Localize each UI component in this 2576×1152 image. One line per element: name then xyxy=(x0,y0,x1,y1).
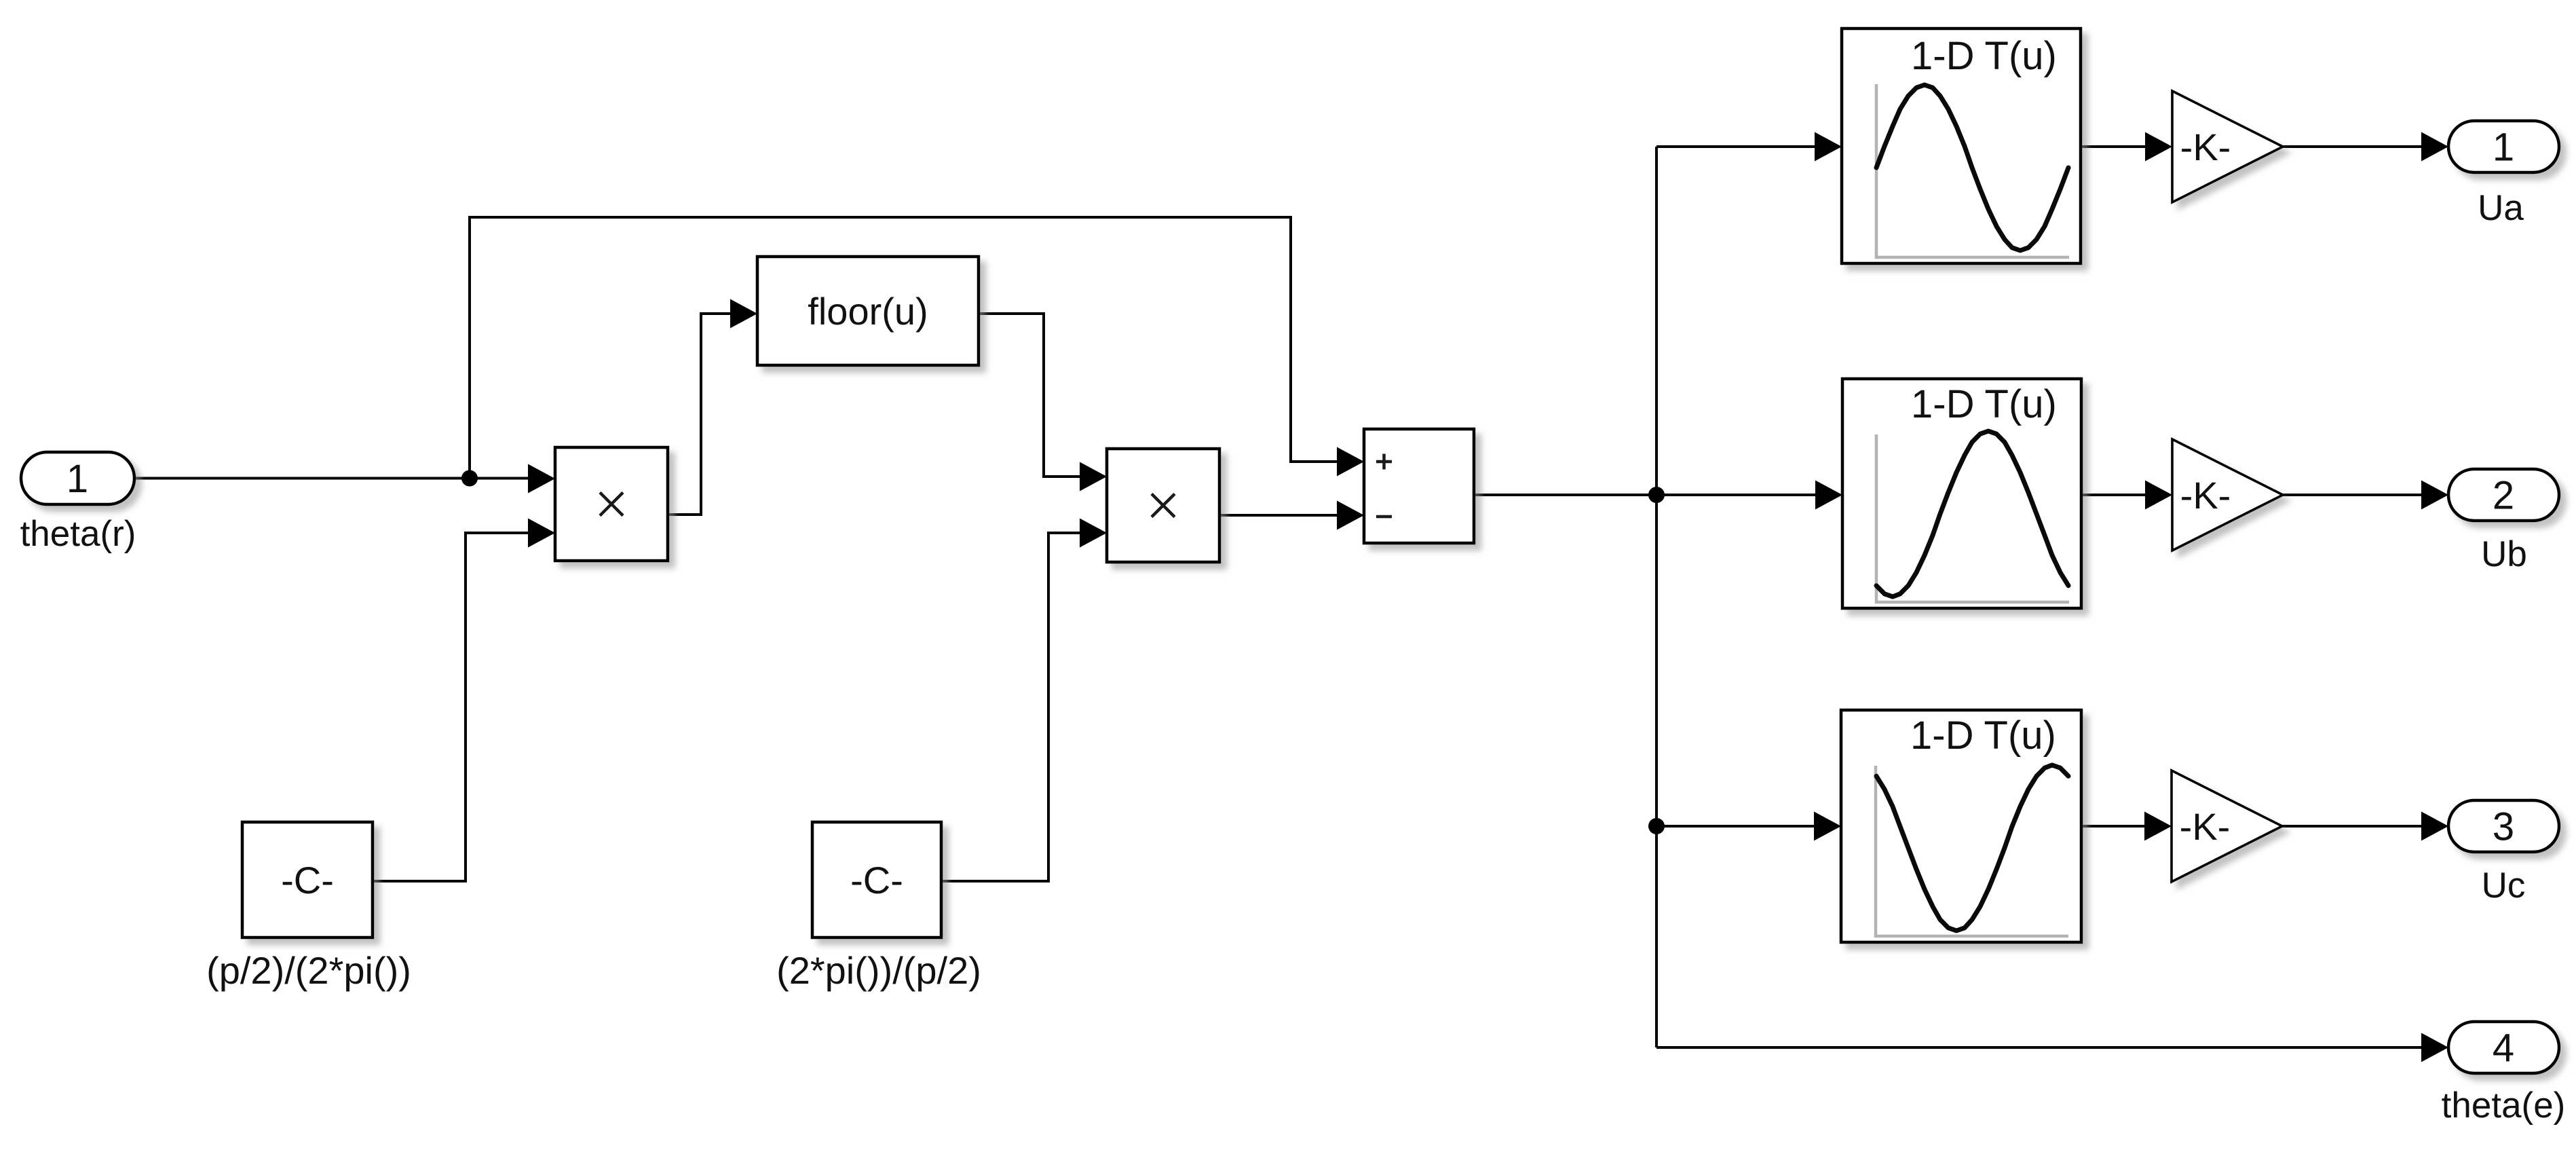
lookup table LUT3 1-D T(u) xyxy=(1841,710,2081,942)
arrowhead at Outport3 xyxy=(2421,812,2448,841)
gain K1 xyxy=(2172,91,2283,202)
wire: Gain1 to Outport1 xyxy=(2283,145,2421,148)
wire: trunk to Lookup3 input xyxy=(1656,825,1815,828)
arrowhead at Gain1 input xyxy=(2145,132,2172,162)
svg-text:theta(e): theta(e) xyxy=(2442,1085,2566,1126)
outport 3 xyxy=(2448,800,2559,852)
block floor(u) xyxy=(757,257,979,365)
gain K3 xyxy=(2172,770,2282,882)
arrowhead at Outport1 xyxy=(2421,132,2448,162)
product P2 xyxy=(1107,449,1219,562)
gain K2 xyxy=(2172,439,2283,551)
outport 2 xyxy=(2448,469,2559,521)
sum block xyxy=(1364,429,1474,543)
product P1 xyxy=(555,447,668,561)
svg-text:3: 3 xyxy=(2493,805,2514,849)
arrowhead at Outport2 xyxy=(2421,481,2448,510)
outport 4 xyxy=(2448,1022,2559,1073)
lookup table LUT1 1-D T(u) xyxy=(1842,29,2081,263)
node junction on Sum output xyxy=(1648,487,1665,503)
svg-text:floor(u): floor(u) xyxy=(808,290,928,333)
arrowhead at Product1 input 1 xyxy=(528,464,555,494)
arrowhead at Lookup2 input xyxy=(1815,481,1842,510)
svg-text:theta(r): theta(r) xyxy=(20,514,136,554)
svg-text:Ub: Ub xyxy=(2481,534,2527,574)
wire: Constant2 to Product2 input 2 xyxy=(941,533,1081,881)
arrowhead at Product2 input 2 xyxy=(1080,519,1107,548)
arrowhead at Product2 input 1 xyxy=(1080,462,1107,491)
wire: Inport theta(r) to Product1 input 1 xyxy=(134,477,528,480)
arrowhead at Gain3 input xyxy=(2144,812,2172,841)
wire: Product2 output to Sum minus input xyxy=(1219,514,1338,517)
lookup table LUT2 1-D T(u) xyxy=(1842,379,2081,608)
svg-text:Ua: Ua xyxy=(2478,188,2524,228)
svg-text:-C-: -C- xyxy=(281,859,334,902)
svg-text:(p/2)/(2*pi()): (p/2)/(2*pi()) xyxy=(206,949,411,992)
svg-text:-K-: -K- xyxy=(2180,474,2231,517)
arrowhead at Lookup1 input xyxy=(1815,132,1842,162)
arrowhead at Lookup3 input xyxy=(1814,812,1841,841)
wire: Gain2 to Outport2 xyxy=(2283,494,2421,496)
arrowhead at Gain2 input xyxy=(2145,481,2172,510)
wire: Lookup1 to Gain1 xyxy=(2081,145,2146,148)
wire: Lookup2 to Gain2 xyxy=(2081,494,2146,496)
arrowhead at Sum minus input xyxy=(1337,501,1364,530)
wire: trunk to Lookup1 input xyxy=(1656,145,1816,148)
svg-text:-C-: -C- xyxy=(850,859,903,902)
wire: Product1 output to floor input xyxy=(668,314,732,515)
arrowhead at Outport4 xyxy=(2421,1033,2448,1062)
wire: Sum output to Lookup2 input xyxy=(1474,494,1817,496)
arrowhead at Product1 input 2 xyxy=(528,519,555,548)
wire: Lookup3 to Gain3 xyxy=(2081,825,2146,828)
svg-text:1: 1 xyxy=(67,457,88,501)
constant C2 xyxy=(812,822,941,937)
wire: Gain3 to Outport3 xyxy=(2282,825,2421,828)
svg-text:1-D T(u): 1-D T(u) xyxy=(1911,382,2057,426)
svg-text:Uc: Uc xyxy=(2482,866,2526,906)
svg-text:1: 1 xyxy=(2493,126,2514,170)
svg-text:-K-: -K- xyxy=(2180,805,2231,848)
arrowhead at floor input xyxy=(730,299,757,329)
wire: Constant1 to Product1 input 2 xyxy=(373,533,528,881)
wire: long top run to Sum plus input xyxy=(468,217,1338,462)
wire: trunk bottom run to Outport4 theta(e) xyxy=(1656,1046,2421,1049)
wire: vertical trunk from Lookup1 row down to theta(e) row xyxy=(1655,147,1658,1047)
node junction for Lookup3 branch xyxy=(1648,818,1665,834)
constant C1 xyxy=(242,822,373,937)
svg-text:1-D T(u): 1-D T(u) xyxy=(1910,713,2056,758)
svg-text:4: 4 xyxy=(2493,1026,2514,1071)
inport 1 theta(r) xyxy=(21,452,134,504)
arrowhead at Sum plus input xyxy=(1337,447,1364,477)
wire: branch riser from junction up xyxy=(468,217,471,479)
svg-text:(2*pi())/(p/2): (2*pi())/(p/2) xyxy=(776,949,981,992)
svg-text:1-D T(u): 1-D T(u) xyxy=(1911,34,2057,78)
svg-text:2: 2 xyxy=(2493,474,2514,518)
wire: floor output to Product2 input 1 xyxy=(979,314,1081,477)
node junction on theta(r) wire xyxy=(461,470,478,487)
svg-text:-K-: -K- xyxy=(2180,126,2231,168)
outport 1 xyxy=(2448,121,2559,172)
